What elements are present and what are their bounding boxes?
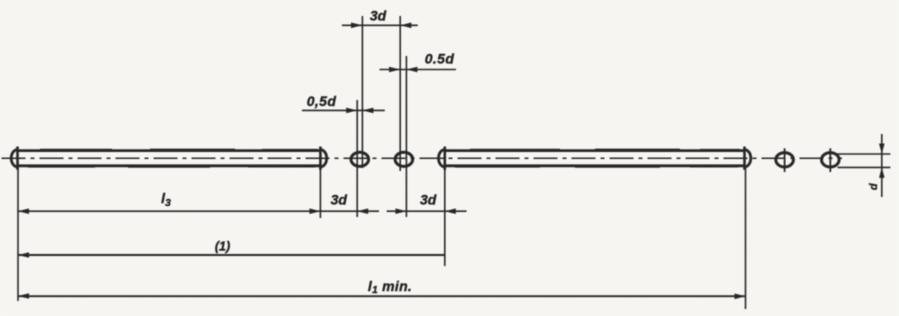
gauge mark ellipse 3 vertical tick [784, 148, 786, 172]
extension line B (left gauge mark, upper) [361, 16, 363, 168]
gauge mark ellipse 4 [822, 153, 840, 167]
left rod right rounded end [320, 150, 326, 167]
extension line F (left end, runs down to all dimension rows) [17, 162, 19, 301]
d arrow up tip [879, 167, 885, 178]
arrow tip right at B [351, 23, 362, 29]
gauge mark ellipse 2 [395, 152, 413, 166]
left rod bottom edge [18, 164, 321, 167]
arrow l3 left tip [18, 208, 29, 214]
arrow tip right at A [346, 108, 357, 114]
arrow 3d right tip at A [357, 208, 368, 214]
scan speckle noise overlay [0, 0, 1, 1]
arrow 3d right tip at E [445, 208, 456, 214]
arrow l1 left tip [18, 293, 29, 299]
dimension line l3 with 3d segments (row 1) [18, 210, 379, 212]
right rod right rounded end [745, 150, 751, 167]
gauge mark ellipse 4 vertical tick [829, 148, 831, 172]
extension line G (right end of left rod) [319, 169, 321, 218]
gauge mark ellipse 1 [351, 152, 369, 166]
right rod top edge [445, 149, 745, 152]
centerline (dash-dot axis through specimen) [2, 157, 843, 159]
arrow tip left at D [406, 67, 417, 73]
arrow (1) left tip [18, 252, 29, 258]
left rod top edge [18, 149, 321, 152]
arrow l1 right tip at H [735, 294, 746, 300]
dimension line 0.5d (upper right) [380, 69, 457, 71]
left rod left end face tick [16, 147, 19, 170]
right rod left end face tick [443, 147, 446, 170]
right rod right end face tick [743, 147, 746, 170]
extension line C (right gauge mark, upper) [399, 16, 401, 171]
extension line A (left gauge mark, lower) [356, 100, 358, 217]
arrow 3d left tip at D [395, 208, 406, 214]
right rod edge scan blotches [470, 148, 740, 150]
gauge mark ellipse 3 [776, 153, 794, 167]
extension line E (left end of right rod, to (1) row) [444, 168, 446, 266]
dimension line 0,5d (left of gauge mark 1) [302, 109, 385, 111]
arrow tip left at B [362, 108, 373, 114]
extension line D (right gauge mark, lower) [405, 56, 407, 217]
arrow tip left at C [400, 23, 411, 29]
extension line H (right end of right rod, to l1 min row) [745, 168, 747, 309]
right rod bottom edge [445, 164, 745, 167]
arrow l3 right tip at G [309, 208, 320, 214]
left rod edge scan blotches [40, 148, 318, 150]
dimension line (1) (row 2) [18, 254, 445, 256]
d arrow down tip [879, 144, 885, 155]
d diameter extension bottom line [838, 166, 891, 168]
d diameter dimension vertical line I [881, 134, 883, 197]
left rod right end face tick [319, 147, 322, 170]
right rod left rounded end [439, 150, 445, 167]
dimension line l1 min (row 3) [18, 295, 746, 297]
arrow tip right at C [389, 67, 400, 73]
dimension line 3d (top, between gauge marks) [342, 24, 418, 26]
left rod left rounded end [11, 150, 17, 167]
d diameter extension top line [838, 153, 891, 155]
